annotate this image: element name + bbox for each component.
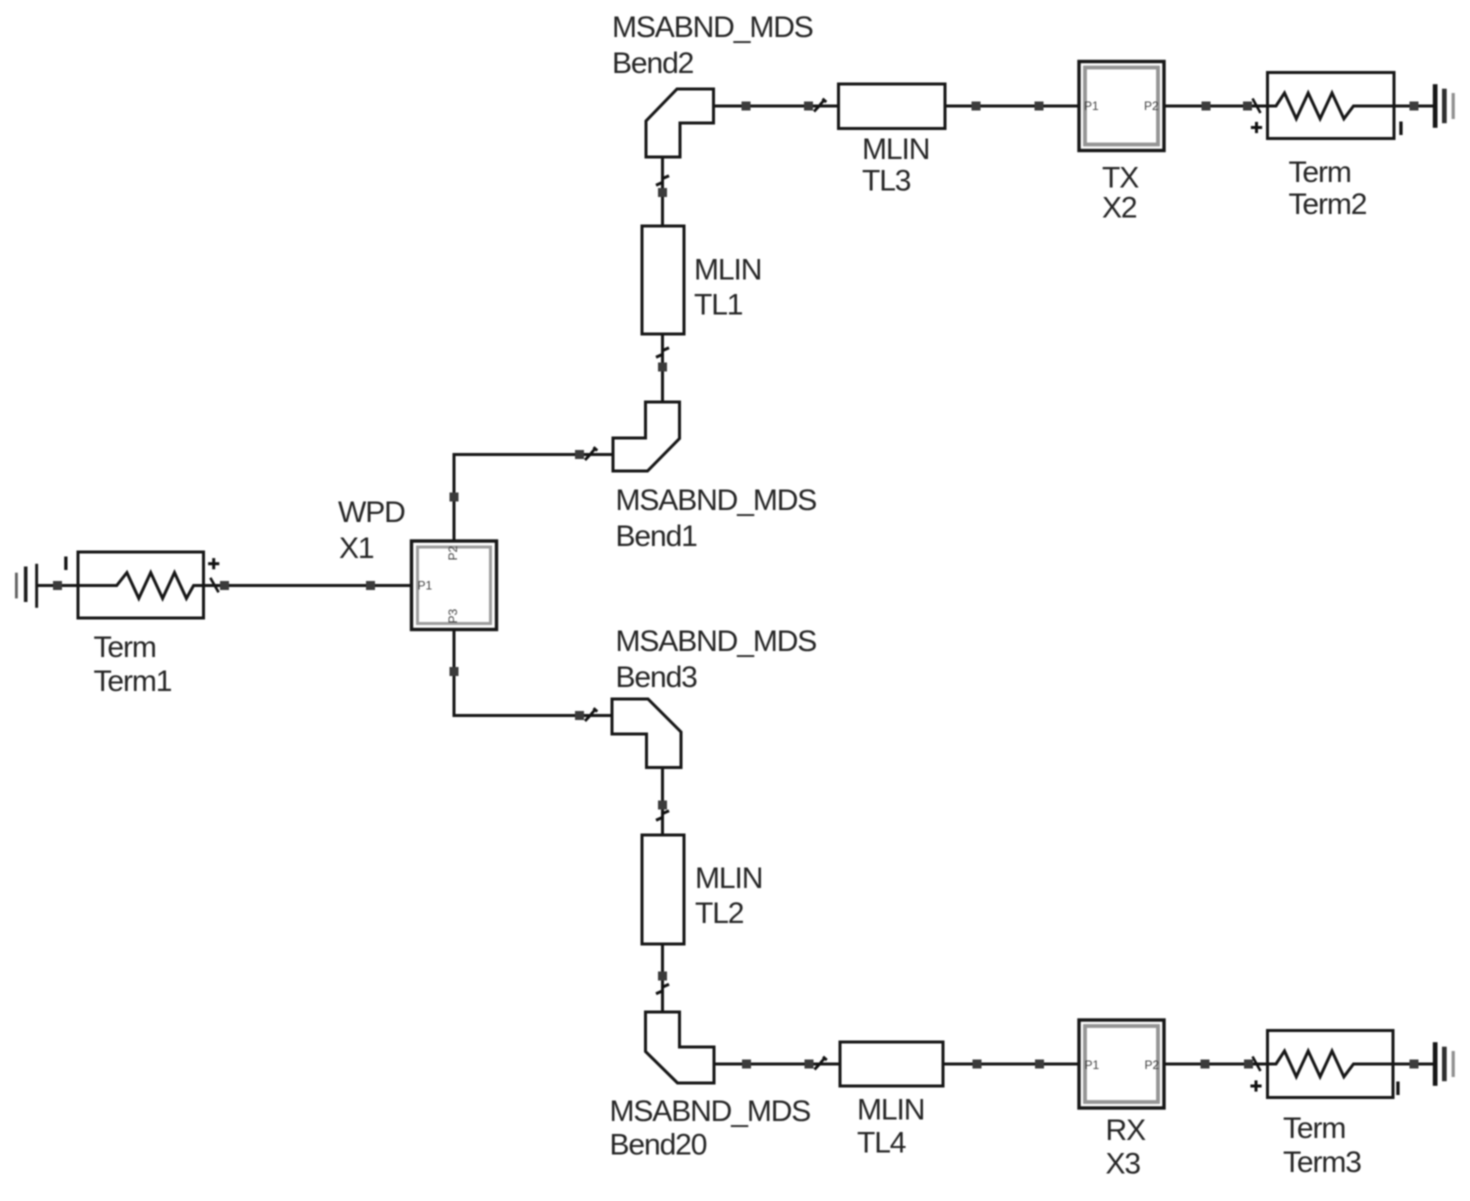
junction dot on W14 near X3 <box>1035 1060 1044 1069</box>
pin tick of TL3 pin 1 <box>814 99 826 112</box>
svg-text:Bend1: Bend1 <box>616 520 698 553</box>
pin tick of TL1 pin 2 <box>656 348 669 358</box>
value label I of Term1 <box>64 557 67 571</box>
svg-text:MLIN: MLIN <box>862 133 929 166</box>
bend Bend20 (MSABND_MDS elbow) <box>646 1012 715 1083</box>
svg-text:TL1: TL1 <box>694 289 743 322</box>
wire W12: TL2 down to Bend20 <box>661 944 664 1012</box>
junction dot on W10 <box>1410 102 1419 111</box>
junction dot on W13 near Bend20 <box>742 1060 751 1069</box>
transmission line TL2 (MLIN, vertical) <box>642 835 684 944</box>
wire W11: Bend3 down to MLIN TL2 <box>661 768 664 836</box>
junction dot on W3 horizontal <box>575 450 584 459</box>
svg-text:X3: X3 <box>1106 1147 1141 1180</box>
svg-text:P1: P1 <box>1084 99 1099 113</box>
svg-text:MSABND_MDS: MSABND_MDS <box>610 1095 811 1128</box>
value label I of Term3 <box>1396 1082 1399 1096</box>
svg-text:Bend20: Bend20 <box>610 1128 707 1161</box>
pin tick of Term1 + terminal <box>210 578 218 593</box>
svg-text:TX: TX <box>1102 161 1139 194</box>
svg-text:P2: P2 <box>1144 99 1159 113</box>
svg-text:Term2: Term2 <box>1289 188 1367 221</box>
pin tick of Bend2 pin 2 <box>656 176 669 186</box>
ground GND1 (left, at Term1) <box>15 564 38 608</box>
svg-text:TL3: TL3 <box>862 164 911 197</box>
svg-text:P2: P2 <box>446 545 460 560</box>
junction dot on W4 vertical <box>450 667 459 676</box>
wire W6: TL1 up to Bend2 <box>661 157 664 226</box>
term Term2 (box with resistor) <box>1268 73 1395 139</box>
svg-text:Term: Term <box>1283 1112 1345 1145</box>
wire W5: Bend1 up to MLIN TL1 <box>661 334 664 402</box>
svg-text:MLIN: MLIN <box>694 254 761 287</box>
junction dot on W7 near Bend2 <box>742 102 751 111</box>
pin tick of Bend20 pin 1 <box>656 984 669 994</box>
junction dot on W16 <box>1410 1060 1419 1069</box>
transmission line TL4 (MLIN, horizontal) <box>840 1042 943 1086</box>
bend Bend2 (MSABND_MDS elbow) <box>646 89 714 157</box>
wire W10: Term2 to ground GND2 <box>1362 105 1434 108</box>
power-divider X1 (WPD, 3-port box) <box>412 541 497 630</box>
value label I of Term2 <box>1399 122 1402 136</box>
term Term1 (box with resistor) <box>78 552 204 618</box>
svg-text:MSABND_MDS: MSABND_MDS <box>616 484 817 517</box>
svg-text:MSABND_MDS: MSABND_MDS <box>612 11 813 44</box>
svg-text:P1: P1 <box>1085 1058 1100 1072</box>
wire W3: X1 pin P2 up and right to Bend1 <box>454 455 613 542</box>
junction dot on W4 horizontal <box>575 711 584 720</box>
junction dot on W7 near TL3 <box>804 102 813 111</box>
wire W7: Bend2 right to MLIN TL3 <box>714 105 840 108</box>
svg-text:TL4: TL4 <box>857 1127 906 1160</box>
transmission line TL3 (MLIN, horizontal) <box>839 84 946 129</box>
svg-text:MLIN: MLIN <box>857 1093 924 1126</box>
junction dot on W15 near Term3 <box>1244 1060 1253 1069</box>
svg-text:Bend2: Bend2 <box>612 47 694 80</box>
svg-text:RX: RX <box>1106 1114 1147 1147</box>
junction dot on W13 near TL4 <box>805 1060 814 1069</box>
wire W16: Term3 to ground GND3 <box>1362 1063 1434 1066</box>
junction dot on W12 <box>658 972 667 981</box>
pin tick of Bend1 pin 1 <box>585 447 597 460</box>
wire W2: Term1 to WPD X1 pin P1 <box>203 584 412 587</box>
subcircuit X2 (TX block) <box>1079 62 1164 151</box>
junction dot on W2 near Term1 <box>220 581 229 590</box>
value label + of Term2 <box>1251 122 1262 133</box>
wire W1: ground GND1 to Term1 pin - <box>38 584 79 587</box>
junction dot on W5 <box>658 363 667 372</box>
junction dot on W15 near X3 <box>1201 1060 1210 1069</box>
pin tick of Term2 + terminal <box>1253 99 1261 114</box>
svg-text:P1: P1 <box>418 579 433 593</box>
junction dot on W8 near X2 <box>1035 102 1044 111</box>
svg-text:Term: Term <box>1289 156 1351 189</box>
svg-text:WPD: WPD <box>338 496 405 529</box>
pin tick of Term3 + terminal <box>1253 1057 1261 1072</box>
junction dot on W14 near TL4 <box>973 1060 982 1069</box>
pin tick of TL2 pin 1 <box>656 811 669 821</box>
term Term3 (box with resistor) <box>1268 1031 1394 1098</box>
bend Bend3 (MSABND_MDS elbow) <box>612 699 681 768</box>
value label + of Term3 <box>1250 1080 1261 1091</box>
svg-text:MSABND_MDS: MSABND_MDS <box>616 625 817 658</box>
wire W4: X1 pin P3 down and right to Bend3 <box>454 630 612 716</box>
pin tick of Bend3 pin 1 <box>585 708 597 721</box>
junction dot on W9 near X2 <box>1202 102 1211 111</box>
junction dot on W2 near X1 <box>366 581 375 590</box>
junction dot on W8 near TL3 <box>972 102 981 111</box>
svg-text:X2: X2 <box>1102 192 1137 225</box>
svg-text:P3: P3 <box>446 608 460 623</box>
svg-text:MLIN: MLIN <box>695 862 762 895</box>
junction dot on W3 vertical <box>450 493 459 502</box>
svg-text:X1: X1 <box>339 532 374 565</box>
wire W13: Bend20 right to MLIN TL4 <box>714 1063 840 1066</box>
svg-text:Term3: Term3 <box>1283 1146 1361 1179</box>
junction dot on W9 near Term2 <box>1243 102 1252 111</box>
svg-text:Term1: Term1 <box>94 665 172 698</box>
wire W9: X2 to Term2 <box>1164 105 1268 108</box>
junction dot on W6 <box>658 188 667 197</box>
wire W8: TL3 to TX X2 <box>945 105 1079 108</box>
ground GND3 (right, at Term3) <box>1433 1042 1455 1086</box>
bend Bend1 (MSABND_MDS elbow) <box>613 402 680 471</box>
wire W14: TL4 to RX X3 <box>943 1063 1079 1066</box>
pin tick of TL4 pin 1 <box>815 1057 827 1070</box>
junction dot on W11 <box>658 801 667 810</box>
wire W15: X3 to Term3 <box>1164 1063 1268 1066</box>
ground GND2 (right, at Term2) <box>1433 84 1455 128</box>
value label + of Term1 <box>208 558 219 569</box>
svg-text:Bend3: Bend3 <box>616 661 698 694</box>
subcircuit X3 (RX block) <box>1079 1020 1164 1108</box>
svg-text:TL2: TL2 <box>695 897 744 930</box>
junction dot on W1 <box>53 581 62 590</box>
svg-text:Term: Term <box>94 631 156 664</box>
svg-text:P2: P2 <box>1145 1058 1160 1072</box>
transmission line TL1 (MLIN, vertical) <box>642 226 684 334</box>
